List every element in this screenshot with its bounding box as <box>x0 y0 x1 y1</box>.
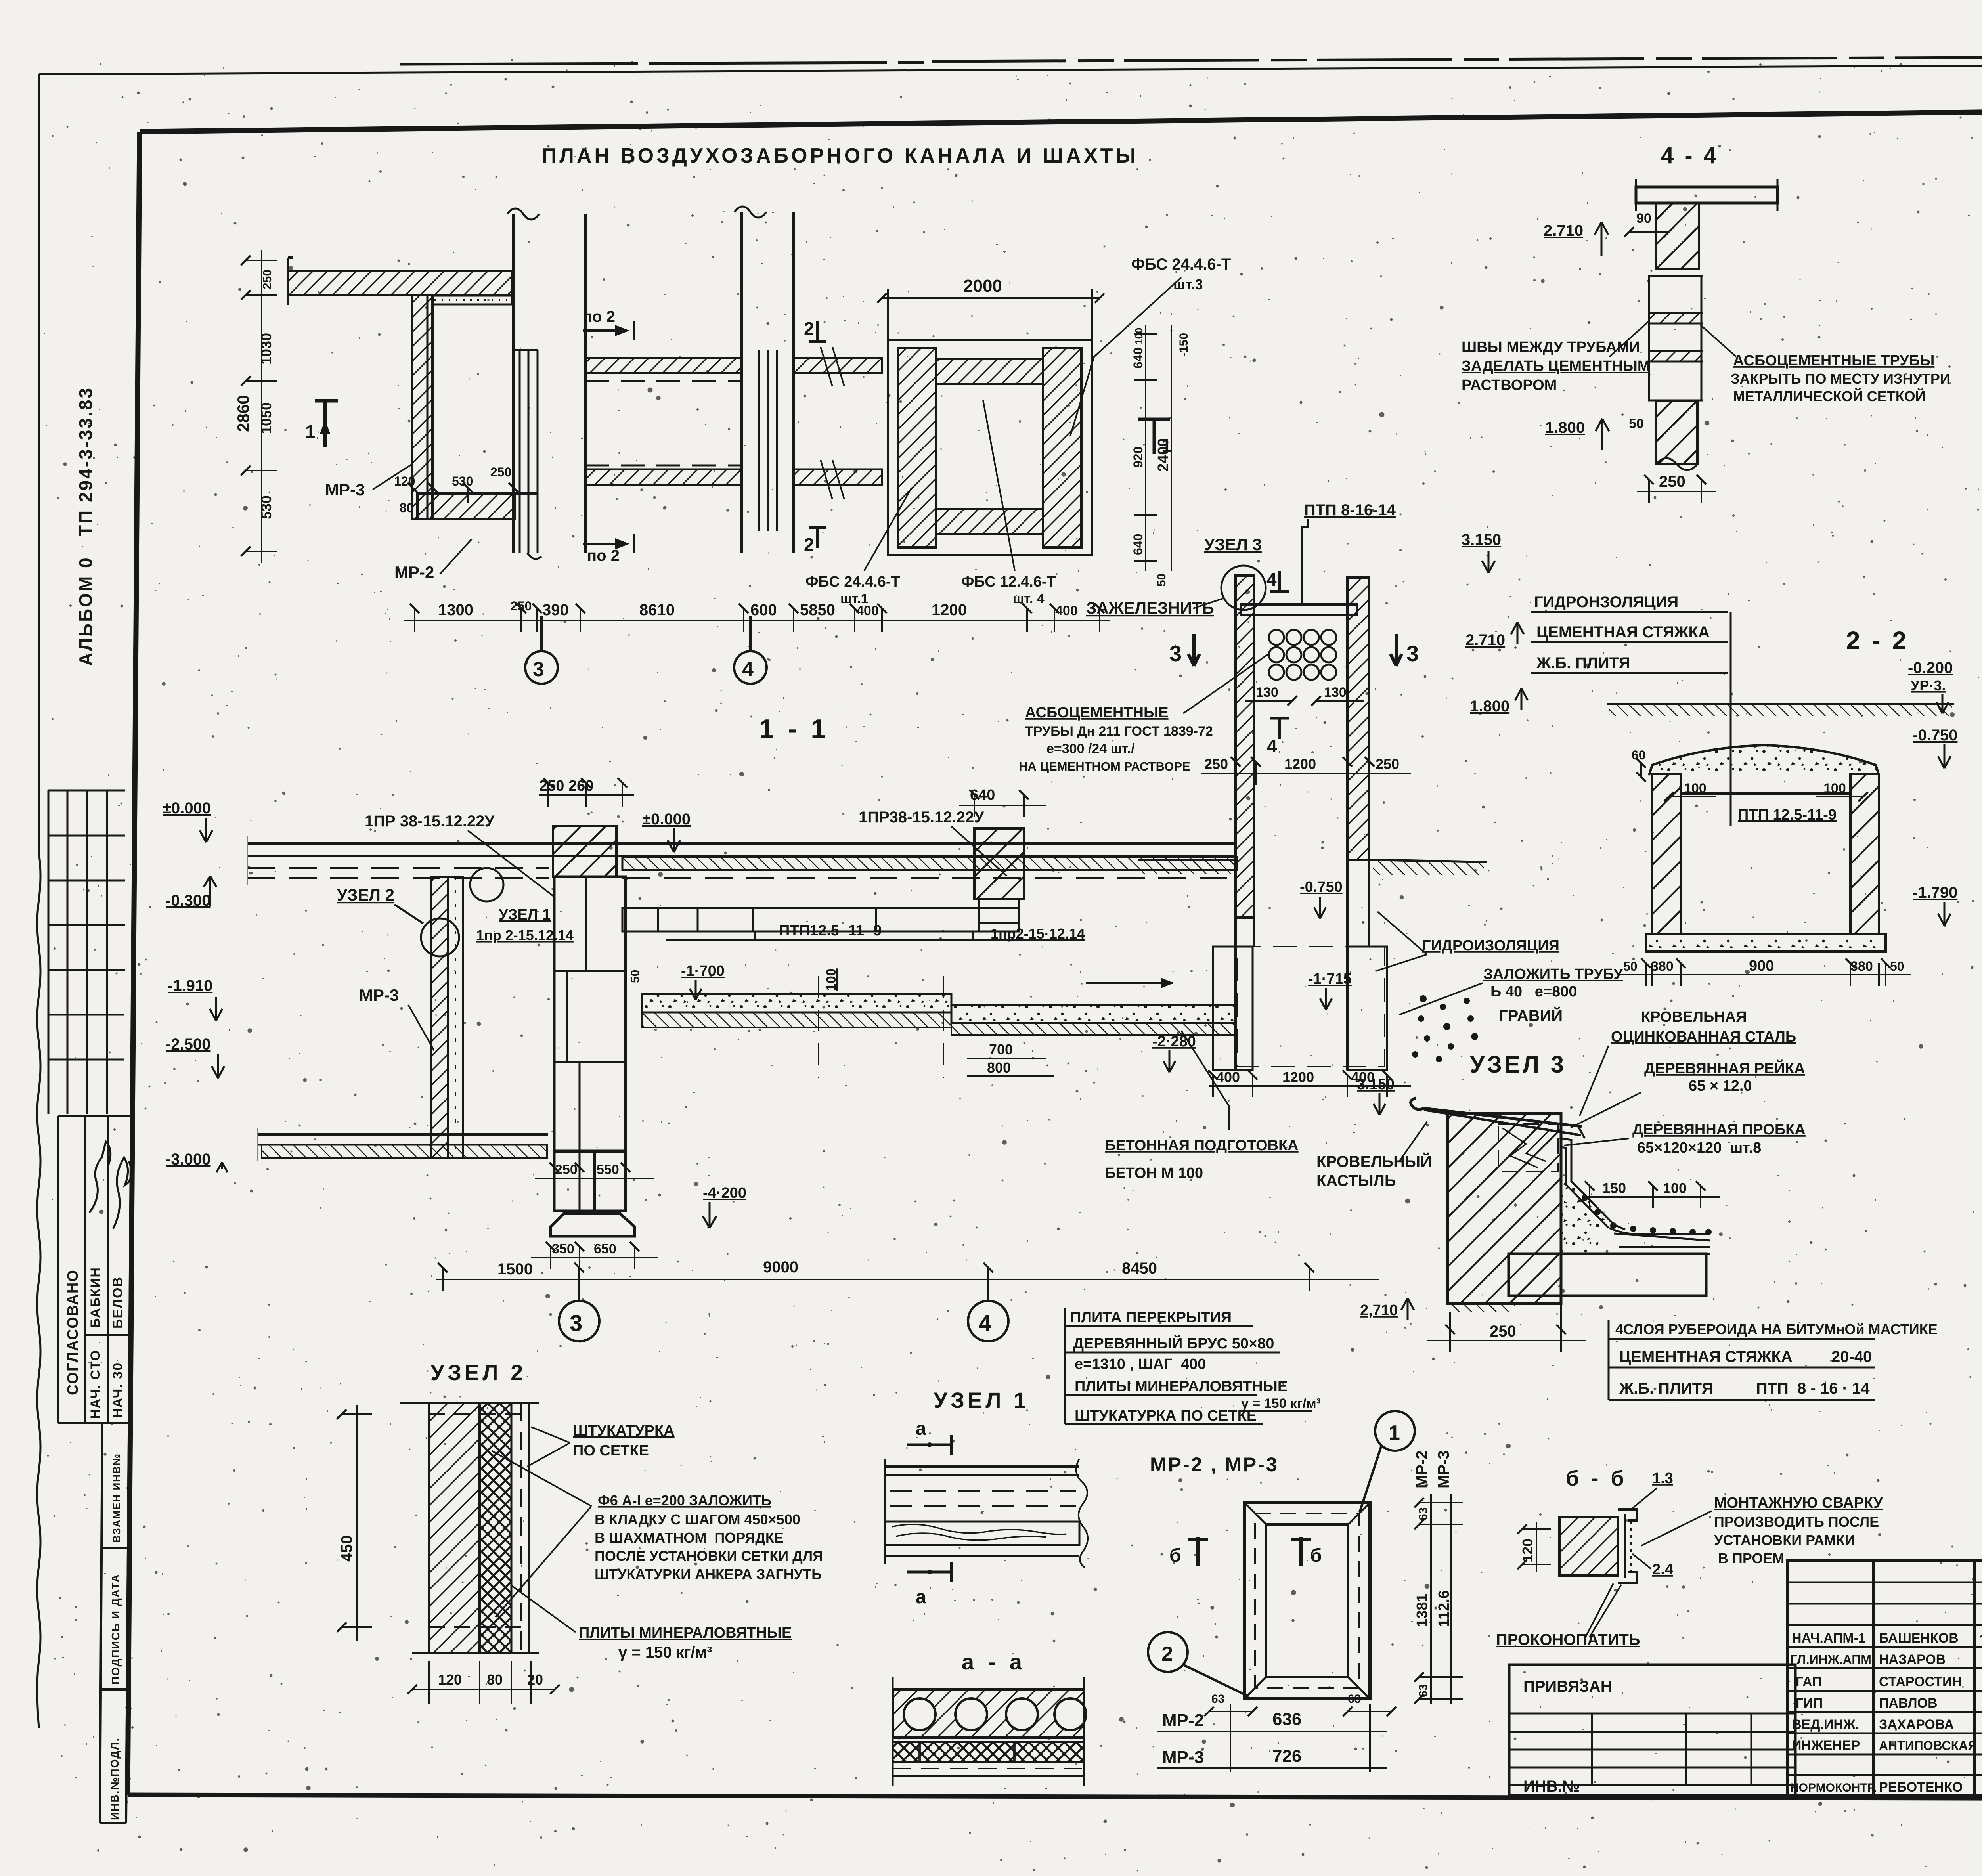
svg-text:ПЛИТА ПЕРЕКРЫТИЯ: ПЛИТА ПЕРЕКРЫТИЯ <box>1070 1309 1232 1326</box>
svg-text:63: 63 <box>1417 1684 1430 1697</box>
svg-text:250: 250 <box>511 599 532 613</box>
svg-text:1пр2-15·12.14: 1пр2-15·12.14 <box>991 926 1085 942</box>
signatures <box>1980 1626 1982 1790</box>
outer thin border <box>39 63 1982 74</box>
callout circles <box>1148 1411 1415 1696</box>
svg-text:250: 250 <box>261 270 274 289</box>
svg-text:-0.200: -0.200 <box>1908 659 1953 677</box>
svg-text:ФБС 12.4.6-Т: ФБС 12.4.6-Т <box>961 574 1056 590</box>
roof plate slanted <box>1411 1098 1585 1138</box>
svg-text:400: 400 <box>1055 603 1078 618</box>
svg-text:640: 640 <box>1131 534 1145 555</box>
left wall (МР-3) <box>431 877 463 1158</box>
svg-text:ОЦИНКОВАННАЯ СТАЛЬ: ОЦИНКОВАННАЯ СТАЛЬ <box>1611 1029 1796 1045</box>
svg-text:3.150: 3.150 <box>1462 531 1501 549</box>
svg-text:4СЛОЯ РУБЕРОИДА НА БИТУМнОй МА: 4СЛОЯ РУБЕРОИДА НА БИТУМнОй МАСТИКЕ <box>1615 1321 1938 1337</box>
elevation marks left <box>163 799 212 1168</box>
svg-text:ПРОКОНОПАТИТЬ: ПРОКОНОПАТИТЬ <box>1496 1631 1640 1648</box>
layer labels with underlines <box>1070 1309 1321 1424</box>
svg-text:63: 63 <box>1417 1507 1430 1520</box>
svg-text:МОНТАЖНУЮ СВАРКУ: МОНТАЖНУЮ СВАРКУ <box>1714 1495 1883 1511</box>
svg-text:1: 1 <box>305 421 316 442</box>
svg-text:550: 550 <box>597 1162 619 1177</box>
svg-text:ПЛИТЫ МИНЕРАЛОВЯТНЫЕ: ПЛИТЫ МИНЕРАЛОВЯТНЫЕ <box>1075 1378 1288 1395</box>
svg-text:ТРУБЫ Дн 211 ГОСТ 1839-72: ТРУБЫ Дн 211 ГОСТ 1839-72 <box>1025 724 1213 739</box>
shaft structure outline <box>888 340 1092 555</box>
step flashing to slab <box>1562 1138 1710 1254</box>
svg-text:РЕБОТЕНКО: РЕБОТЕНКО <box>1879 1780 1963 1795</box>
250 dim under block <box>1427 1296 1586 1352</box>
svg-text:-1·715: -1·715 <box>1308 971 1352 987</box>
frame drawing <box>1244 1503 1370 1699</box>
bottom dims 120 80 20 <box>412 1661 555 1704</box>
svg-text:726: 726 <box>1272 1746 1301 1766</box>
svg-text:ГИДРОНЗОЛЯЦИЯ: ГИДРОНЗОЛЯЦИЯ <box>1534 593 1678 611</box>
svg-text:ГИП: ГИП <box>1796 1696 1823 1711</box>
bottom dim 250 <box>1637 480 1716 503</box>
svg-text:ПТП 8 - 16 · 14: ПТП 8 - 16 · 14 <box>1756 1380 1870 1397</box>
150 100 dims <box>1582 1186 1720 1208</box>
shaft underground walls <box>1213 860 1387 1070</box>
svg-text:НОРМОКОНТР.: НОРМОКОНТР. <box>1790 1781 1877 1794</box>
svg-text:2400: 2400 <box>1155 438 1172 472</box>
masonry block <box>1448 1113 1561 1304</box>
svg-text:640: 640 <box>1131 348 1145 369</box>
slab drawing <box>885 1459 1088 1568</box>
svg-text:2,710: 2,710 <box>1360 1302 1398 1319</box>
svg-text:1300: 1300 <box>438 601 473 619</box>
svg-text:ИНВ.№ПОДЛ.: ИНВ.№ПОДЛ. <box>109 1738 121 1820</box>
svg-text:250: 250 <box>1376 756 1399 772</box>
svg-text:2 - 2: 2 - 2 <box>1846 626 1909 655</box>
svg-text:5850: 5850 <box>800 601 835 619</box>
svg-text:ШТУКАТУРКА: ШТУКАТУРКА <box>573 1423 675 1439</box>
svg-text:4: 4 <box>742 658 754 681</box>
100 dims <box>1669 796 1863 797</box>
svg-text:ВЗАМЕН ИНВ№: ВЗАМЕН ИНВ№ <box>111 1453 122 1543</box>
svg-text:УЗЕЛ 1: УЗЕЛ 1 <box>934 1388 1029 1413</box>
svg-text:МР-2: МР-2 <box>1413 1450 1431 1488</box>
svg-text:УР·3.: УР·3. <box>1911 677 1946 694</box>
svg-text:2000: 2000 <box>963 276 1002 296</box>
svg-text:шт. 4: шт. 4 <box>1013 591 1045 606</box>
ground level at shaft <box>1138 860 1486 875</box>
central column <box>551 826 635 1236</box>
svg-text:390: 390 <box>542 601 569 619</box>
svg-text:ИНЖЕНЕР: ИНЖЕНЕР <box>1792 1738 1860 1753</box>
250 260 dims above column <box>539 783 634 807</box>
wall layers <box>400 1403 539 1653</box>
svg-text:20: 20 <box>527 1671 543 1688</box>
tank <box>1646 745 1886 952</box>
svg-text:63: 63 <box>1348 1692 1361 1706</box>
section mark 1 right <box>1138 418 1170 454</box>
svg-text:-0.750: -0.750 <box>1300 879 1343 895</box>
svg-text:100: 100 <box>1133 328 1145 345</box>
svg-text:МР-2: МР-2 <box>1162 1711 1204 1730</box>
svg-text:150: 150 <box>1602 1180 1626 1196</box>
svg-text:ЗАЛОЖИТЬ ТРУБУ: ЗАЛОЖИТЬ ТРУБУ <box>1483 966 1623 983</box>
wall band 4 <box>740 212 743 553</box>
svg-text:Ь 40 е=800: Ь 40 е=800 <box>1490 983 1577 1000</box>
svg-text:700: 700 <box>989 1041 1013 1058</box>
svg-text:БЕТОННАЯ ПОДГОТОВКА: БЕТОННАЯ ПОДГОТОВКА <box>1105 1137 1299 1154</box>
250 1200 250 dims <box>1201 762 1411 785</box>
svg-text:МР-3: МР-3 <box>1435 1450 1452 1488</box>
elevation 2.710 <box>1595 222 1608 256</box>
svg-text:УЗЕЛ 2: УЗЕЛ 2 <box>430 1360 526 1385</box>
ground concrete strip right <box>642 976 951 1078</box>
svg-text:-0.300: -0.300 <box>166 892 210 909</box>
svg-text:100: 100 <box>1663 1180 1687 1196</box>
channel after band4 <box>794 358 882 373</box>
svg-text:-1.910: -1.910 <box>168 977 212 994</box>
svg-text:АСБОЦЕМЕНТНЫЕ ТРУБЫ: АСБОЦЕМЕНТНЫЕ ТРУБЫ <box>1733 352 1934 369</box>
top dashed outer border segments <box>400 55 1982 64</box>
svg-text:2.710: 2.710 <box>1544 222 1583 239</box>
elevation 1.800 <box>1596 419 1609 450</box>
svg-text:УЗЕЛ 3: УЗЕЛ 3 <box>1204 535 1262 554</box>
svg-text:8450: 8450 <box>1122 1260 1157 1277</box>
svg-text:УЗЕЛ 2: УЗЕЛ 2 <box>337 885 394 904</box>
svg-text:380: 380 <box>1651 959 1674 974</box>
svg-text:ПРИВЯЗАН: ПРИВЯЗАН <box>1523 1678 1612 1695</box>
svg-text:АНТИПОВСКАЯ: АНТИПОВСКАЯ <box>1879 1738 1977 1753</box>
grid circles 3,4 <box>525 616 767 684</box>
svg-text:В ШАХМАТНОМ ПОРЯДКЕ: В ШАХМАТНОМ ПОРЯДКЕ <box>595 1530 784 1546</box>
svg-text:1050: 1050 <box>258 402 274 434</box>
svg-text:380: 380 <box>1850 959 1873 974</box>
svg-text:450: 450 <box>338 1535 356 1562</box>
lower wall <box>1656 401 1697 464</box>
a section marks <box>907 1435 951 1582</box>
svg-text:КРОВЕЛЬНАЯ: КРОВЕЛЬНАЯ <box>1641 1009 1747 1025</box>
svg-text:СОГЛАСОВАНО: СОГЛАСОВАНО <box>65 1269 81 1395</box>
svg-text:БАБКИН: БАБКИН <box>88 1267 103 1328</box>
svg-text:600: 600 <box>750 601 777 619</box>
svg-text:1 - 1: 1 - 1 <box>759 714 829 744</box>
svg-text:-150: -150 <box>1177 333 1190 357</box>
svg-text:2: 2 <box>1161 1643 1173 1666</box>
leader lines for FBS labels <box>864 277 1181 571</box>
svg-text:ГИДРОИЗОЛЯЦИЯ: ГИДРОИЗОЛЯЦИЯ <box>1422 937 1559 954</box>
bottom wall <box>417 493 515 519</box>
svg-text:250: 250 <box>1659 473 1685 490</box>
svg-text:1030: 1030 <box>258 333 274 365</box>
svg-text:МР-2: МР-2 <box>394 563 434 581</box>
channel between band3 and band4: upper/lower walls <box>585 358 741 373</box>
svg-text:1ПР38-15.12.22У: 1ПР38-15.12.22У <box>859 809 984 826</box>
wall band 3 <box>512 214 515 553</box>
svg-text:-1.790: -1.790 <box>1913 884 1957 901</box>
svg-text:120: 120 <box>1519 1539 1536 1562</box>
svg-text:3: 3 <box>533 658 544 681</box>
svg-text:120: 120 <box>438 1671 462 1688</box>
section mark 1 left <box>315 400 338 447</box>
svg-text:ВЕД.ИНЖ.: ВЕД.ИНЖ. <box>1792 1717 1859 1732</box>
slab with hollow cores <box>893 1677 1086 1786</box>
svg-text:650: 650 <box>594 1241 616 1256</box>
svg-text:920: 920 <box>1131 447 1145 468</box>
svg-text:ДЕРЕВЯННАЯ РЕЙКА: ДЕРЕВЯННАЯ РЕЙКА <box>1644 1059 1805 1077</box>
svg-text:530: 530 <box>452 474 473 488</box>
revision grid upper-left margin <box>48 790 125 1114</box>
svg-text:МР-3: МР-3 <box>1162 1748 1204 1767</box>
svg-text:1ПР 38-15.12.22У: 1ПР 38-15.12.22У <box>365 813 495 830</box>
svg-text:4: 4 <box>979 1310 991 1336</box>
svg-text:ШТУКАТУРКИ АНКЕРА ЗАГНУТЬ: ШТУКАТУРКИ АНКЕРА ЗАГНУТЬ <box>595 1566 822 1582</box>
svg-text:50: 50 <box>629 970 642 983</box>
svg-text:ГЛ.ИНЖ.АПМ: ГЛ.ИНЖ.АПМ <box>1790 1652 1871 1667</box>
shaft walls <box>1236 576 1369 918</box>
svg-text:по 2: по 2 <box>583 308 615 325</box>
svg-text:3: 3 <box>1406 641 1419 666</box>
rebar dots on slab <box>1582 1195 1712 1235</box>
svg-text:1381: 1381 <box>1414 1593 1431 1627</box>
svg-text:КАСТЫЛЬ: КАСТЫЛЬ <box>1316 1172 1396 1189</box>
svg-text:250: 250 <box>555 1162 578 1177</box>
130 dims + section 4 marks <box>1245 700 1364 702</box>
svg-text:800: 800 <box>987 1059 1011 1076</box>
svg-text:-4·200: -4·200 <box>703 1185 746 1201</box>
bottom dims 400 1200 400 <box>1209 1075 1411 1097</box>
svg-text:50: 50 <box>1155 574 1168 587</box>
asbestos pipe circles <box>1269 630 1336 680</box>
svg-text:ЗАХАРОВА: ЗАХАРОВА <box>1879 1717 1954 1732</box>
svg-text:ПТП 12.5-11-9: ПТП 12.5-11-9 <box>1738 807 1837 823</box>
svg-text:е=300 /24 шт./: е=300 /24 шт./ <box>1046 741 1135 756</box>
svg-text:АСБОЦЕМЕНТНЫЕ: АСБОЦЕМЕНТНЫЕ <box>1025 704 1169 721</box>
svg-text:УСТАНОВКИ РАМКИ: УСТАНОВКИ РАМКИ <box>1714 1532 1855 1548</box>
inner thick frame <box>140 106 1982 132</box>
svg-text:МР-3: МР-3 <box>325 480 365 499</box>
svg-text:ИНВ.№: ИНВ.№ <box>1523 1778 1580 1795</box>
svg-text:ПАВЛОВ: ПАВЛОВ <box>1879 1696 1938 1711</box>
svg-text:ФБС 24.4.6-Т: ФБС 24.4.6-Т <box>1131 256 1231 273</box>
left vertical wall <box>412 295 432 519</box>
right dim chain of shaft <box>1134 325 1171 571</box>
svg-text:ЦЕМЕНТНАЯ СТЯЖКА: ЦЕМЕНТНАЯ СТЯЖКА <box>1536 623 1710 641</box>
svg-text:ЦЕМЕНТНАЯ СТЯЖКА: ЦЕМЕНТНАЯ СТЯЖКА <box>1619 1348 1793 1365</box>
svg-text:4 - 4: 4 - 4 <box>1661 143 1719 168</box>
svg-text:УЗЕЛ 1: УЗЕЛ 1 <box>499 906 551 923</box>
concrete patch left of step <box>1561 1181 1609 1253</box>
insulation dotted strip under top wall <box>432 296 512 304</box>
svg-text:шт.3: шт.3 <box>1173 276 1203 293</box>
svg-text:КРОВЕЛЬНЫЙ: КРОВЕЛЬНЫЙ <box>1316 1152 1432 1170</box>
svg-text:90: 90 <box>1636 211 1651 226</box>
svg-text:1.800: 1.800 <box>1545 419 1585 436</box>
svg-text:250: 250 <box>490 465 511 479</box>
svg-text:БАШЕНКОВ: БАШЕНКОВ <box>1879 1631 1959 1646</box>
svg-text:ДЕРЕВЯННАЯ ПРОБКА: ДЕРЕВЯННАЯ ПРОБКА <box>1632 1121 1806 1138</box>
svg-text:-3.000: -3.000 <box>166 1151 210 1168</box>
svg-text:а: а <box>916 1587 926 1608</box>
svg-text:Ф6 А-I е=200 ЗАЛОЖИТЬ: Ф6 А-I е=200 ЗАЛОЖИТЬ <box>598 1492 771 1509</box>
bottom dims of column <box>535 1167 654 1189</box>
svg-text:ПЛИТЫ МИНЕРАЛОВЯТНЫЕ: ПЛИТЫ МИНЕРАЛОВЯТНЫЕ <box>579 1625 792 1641</box>
svg-text:по 2: по 2 <box>587 547 620 564</box>
svg-text:±0.000: ±0.000 <box>642 811 691 828</box>
names table <box>1788 1561 1982 1796</box>
margin stamp boxes <box>58 1116 131 1823</box>
svg-text:120: 120 <box>394 474 415 488</box>
svg-text:2: 2 <box>804 318 814 339</box>
svg-text:530: 530 <box>258 495 274 519</box>
svg-text:900: 900 <box>1749 958 1774 974</box>
top slab <box>1636 187 1777 203</box>
svg-text:1пр 2-15.12.14: 1пр 2-15.12.14 <box>476 927 574 943</box>
svg-text:250: 250 <box>1490 1323 1516 1340</box>
svg-text:112.6: 112.6 <box>1436 1590 1452 1627</box>
svg-text:1.3: 1.3 <box>1652 1470 1673 1487</box>
svg-text:НАЧ.АПМ-1: НАЧ.АПМ-1 <box>1792 1631 1866 1646</box>
pipe stack <box>1648 276 1703 400</box>
svg-text:БЕЛОВ: БЕЛОВ <box>110 1276 125 1329</box>
svg-text:2.4: 2.4 <box>1652 1561 1673 1578</box>
svg-text:МР-2 , МР-3: МР-2 , МР-3 <box>1150 1453 1279 1476</box>
svg-text:50: 50 <box>1629 416 1644 431</box>
svg-text:65 × 12.0: 65 × 12.0 <box>1689 1078 1752 1094</box>
svg-text:400: 400 <box>856 603 879 618</box>
svg-text:20-40: 20-40 <box>1831 1348 1872 1365</box>
svg-text:±0.000: ±0.000 <box>163 799 211 817</box>
svg-text:350: 350 <box>552 1241 574 1256</box>
svg-text:ЗАДЕЛАТЬ ЦЕМЕНТНЫМ: ЗАДЕЛАТЬ ЦЕМЕНТНЫМ <box>1462 358 1650 375</box>
svg-text:ГАП: ГАП <box>1796 1674 1822 1689</box>
svg-text:а - а: а - а <box>962 1649 1026 1674</box>
svg-text:9000: 9000 <box>763 1258 798 1276</box>
bottom dim chain <box>404 608 1110 632</box>
svg-text:1200: 1200 <box>1282 1069 1314 1085</box>
svg-text:60: 60 <box>1632 748 1646 762</box>
svg-text:е=1310 , ШАГ 400: е=1310 , ШАГ 400 <box>1075 1356 1206 1373</box>
svg-text:НАЧ. 30: НАЧ. 30 <box>110 1362 125 1418</box>
svg-text:8610: 8610 <box>639 601 675 619</box>
svg-text:В КЛАДКУ С ШАГОМ 450×500: В КЛАДКУ С ШАГОМ 450×500 <box>595 1511 800 1528</box>
left room bottom floor <box>258 1128 548 1161</box>
svg-text:НАЧ. СТО: НАЧ. СТО <box>88 1350 103 1419</box>
svg-text:а: а <box>916 1418 926 1439</box>
svg-text:4: 4 <box>1266 569 1277 590</box>
svg-text:3: 3 <box>1169 641 1182 666</box>
bottom dim line with grid bubbles <box>436 1268 1379 1300</box>
bottom 636/726 dims <box>1157 1704 1391 1772</box>
svg-text:б - б: б - б <box>1566 1467 1627 1490</box>
privyazan table <box>1509 1665 1795 1796</box>
svg-text:100: 100 <box>1823 781 1846 796</box>
svg-text:ДЕРЕВЯННЫЙ БРУС 50×80: ДЕРЕВЯННЫЙ БРУС 50×80 <box>1073 1334 1274 1352</box>
svg-text:4: 4 <box>1267 736 1277 756</box>
left dim chain <box>246 250 277 563</box>
svg-text:250 260: 250 260 <box>539 778 593 794</box>
dim 2000 <box>882 289 1100 340</box>
wood plug dashed box <box>1498 1124 1558 1172</box>
svg-text:ПТП12.5 -11- 9: ПТП12.5 -11- 9 <box>779 922 882 939</box>
svg-text:2860: 2860 <box>234 395 253 432</box>
upper wall <box>1656 203 1699 269</box>
detail <box>1559 1509 1637 1583</box>
svg-text:ФБС 24.4.6-Т: ФБС 24.4.6-Т <box>805 574 900 590</box>
bottom dims <box>1617 963 1911 986</box>
svg-text:Ж.Б. ПЛИТЯ: Ж.Б. ПЛИТЯ <box>1619 1380 1713 1397</box>
svg-text:б: б <box>1310 1545 1322 1566</box>
svg-text:ПЛАН ВОЗДУХОЗАБОРНОГО КАНАЛА И: ПЛАН ВОЗДУХОЗАБОРНОГО КАНАЛА И ШАХТЫ <box>542 144 1138 167</box>
top floor slab <box>248 836 1237 885</box>
450 dim <box>342 1405 372 1641</box>
svg-text:3.150: 3.150 <box>1357 1076 1395 1093</box>
svg-text:МР-3: МР-3 <box>359 986 399 1004</box>
svg-text:ЗАКРЫТЬ ПО МЕСТУ ИЗНУТРИ: ЗАКРЫТЬ ПО МЕСТУ ИЗНУТРИ <box>1731 371 1950 387</box>
svg-text:2.710: 2.710 <box>1465 631 1505 649</box>
svg-text:1500: 1500 <box>497 1260 533 1278</box>
svg-text:б: б <box>1169 1545 1181 1566</box>
top wall hatched strip <box>288 271 512 295</box>
svg-text:ГРАВИЙ: ГРАВИЙ <box>1499 1006 1563 1025</box>
svg-text:1.800: 1.800 <box>1470 698 1509 715</box>
svg-text:БЕТОН М 100: БЕТОН М 100 <box>1105 1165 1203 1182</box>
svg-text:65×120×120 шт.8: 65×120×120 шт.8 <box>1637 1140 1761 1156</box>
signatures <box>89 1142 132 1229</box>
svg-text:НАЗАРОВ: НАЗАРОВ <box>1879 1652 1946 1667</box>
svg-text:250: 250 <box>1204 756 1228 772</box>
svg-text:80: 80 <box>487 1671 503 1688</box>
svg-text:РАСТВОРОМ: РАСТВОРОМ <box>1462 377 1557 394</box>
svg-text:130: 130 <box>1324 685 1347 700</box>
svg-text:-0.750: -0.750 <box>1913 727 1957 744</box>
svg-text:СТАРОСТИН: СТАРОСТИН <box>1879 1674 1962 1689</box>
svg-text:1: 1 <box>1389 1421 1400 1444</box>
svg-text:ПРОИЗВОДИТЬ ПОСЛЕ: ПРОИЗВОДИТЬ ПОСЛЕ <box>1714 1514 1879 1530</box>
svg-text:1200: 1200 <box>932 601 967 619</box>
svg-text:АЛЬБОМ 0 ТП 294-3-33.83: АЛЬБОМ 0 ТП 294-3-33.83 <box>75 386 96 666</box>
svg-text:ПОДПИСЬ И ДАТА: ПОДПИСЬ И ДАТА <box>109 1574 122 1685</box>
svg-text:МЕТАЛЛИЧЕСКОЙ СЕТКОЙ: МЕТАЛЛИЧЕСКОЙ СЕТКОЙ <box>1733 388 1926 404</box>
svg-text:γ = 150 кг/м³: γ = 150 кг/м³ <box>618 1644 712 1661</box>
svg-text:50: 50 <box>1890 959 1904 973</box>
channel floor to shaft <box>951 978 1236 1035</box>
svg-text:НА ЦЕМЕНТНОМ РАСТВОРЕ: НА ЦЕМЕНТНОМ РАСТВОРЕ <box>1019 759 1190 773</box>
svg-text:ПОСЛЕ УСТАНОВКИ СЕТКИ ДЛЯ: ПОСЛЕ УСТАНОВКИ СЕТКИ ДЛЯ <box>595 1548 823 1564</box>
svg-text:3: 3 <box>570 1310 582 1336</box>
svg-text:ШТУКАТУРКА ПО СЕТКЕ: ШТУКАТУРКА ПО СЕТКЕ <box>1075 1407 1257 1424</box>
svg-text:100: 100 <box>1684 781 1707 796</box>
svg-text:ПО СЕТКЕ: ПО СЕТКЕ <box>573 1442 649 1459</box>
svg-text:2: 2 <box>804 534 814 555</box>
svg-text:400: 400 <box>1216 1069 1240 1085</box>
slab PTP 8-16-14 <box>1448 1254 1706 1312</box>
svg-text:-2·280: -2·280 <box>1152 1033 1196 1050</box>
svg-text:Ж.Б. ПЛИТЯ: Ж.Б. ПЛИТЯ <box>1536 654 1630 672</box>
svg-text:636: 636 <box>1272 1710 1301 1729</box>
svg-text:-1·700: -1·700 <box>681 963 725 979</box>
svg-text:130: 130 <box>1256 685 1278 700</box>
svg-text:В ПРОЕМ: В ПРОЕМ <box>1718 1550 1784 1566</box>
svg-text:50: 50 <box>1623 959 1638 973</box>
svg-text:ПТП 8-16-14: ПТП 8-16-14 <box>1304 501 1396 519</box>
svg-text:63: 63 <box>1211 1692 1224 1706</box>
svg-text:-2.500: -2.500 <box>166 1036 210 1053</box>
svg-text:УЗЕЛ 3: УЗЕЛ 3 <box>1470 1051 1566 1078</box>
ground strip <box>1607 704 1954 716</box>
svg-text:100: 100 <box>824 968 839 991</box>
right precast slab band PTP <box>622 908 1019 940</box>
svg-text:1200: 1200 <box>1284 756 1316 772</box>
